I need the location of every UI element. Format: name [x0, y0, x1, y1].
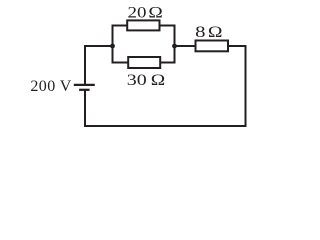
node A (left junction dot): [110, 44, 115, 49]
wire: bottom return wire: [85, 90, 247, 126]
svg-text:20: 20: [128, 5, 147, 22]
svg-text:8: 8: [195, 24, 205, 41]
wire: R1 right lead to right branch vertical: [160, 25, 176, 27]
wire: R3 right lead to top-right corner, down right side: [228, 46, 246, 126]
wire: R2 right lead to right branch vertical: [160, 62, 175, 64]
label: 30 Ω value: [127, 72, 166, 89]
svg-text:30: 30: [127, 72, 147, 89]
node B (right junction dot): [172, 44, 177, 49]
label: 8 Ω value: [195, 24, 222, 41]
wire: top branch, node A to R1 left lead: [112, 25, 128, 27]
wire: node B to R3 left lead: [175, 45, 196, 47]
resistor R2 (30 ohm) body: [128, 57, 160, 68]
svg-text:Ω: Ω: [208, 24, 223, 41]
battery V1: short (negative) plate: [79, 89, 90, 91]
svg-text:Ω: Ω: [151, 72, 166, 89]
wire: bottom branch, node A to R2 left lead: [112, 62, 129, 64]
svg-text:200 V: 200 V: [30, 78, 71, 95]
battery V1: long (positive) plate: [74, 84, 95, 86]
wire: right branch vertical (x=174.5): [174, 26, 176, 63]
label: 20 Ω value: [128, 5, 163, 22]
resistor R1 (20 ohm) body: [127, 20, 159, 30]
svg-text:Ω: Ω: [148, 5, 163, 22]
wire: node A vertical split (x=112.5): [112, 26, 114, 63]
wire: battery positive terminal up to top-left corner and right to node A: [85, 46, 113, 85]
resistor R3 (8 ohm) body: [196, 41, 229, 52]
